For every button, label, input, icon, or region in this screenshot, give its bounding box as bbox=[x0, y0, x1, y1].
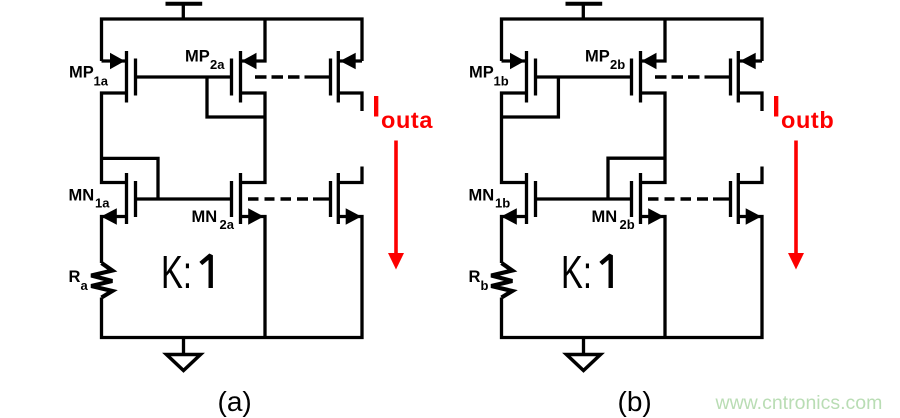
svg-text:(a): (a) bbox=[218, 386, 252, 417]
svg-text:MN: MN bbox=[69, 187, 95, 205]
svg-text:2a: 2a bbox=[210, 57, 225, 72]
svg-text:1a: 1a bbox=[94, 74, 109, 89]
svg-text:outb: outb bbox=[781, 107, 834, 133]
svg-text:MP: MP bbox=[585, 48, 610, 66]
svg-text:b: b bbox=[481, 278, 489, 293]
svg-text:MP: MP bbox=[469, 64, 494, 82]
svg-text:1b: 1b bbox=[495, 196, 510, 211]
svg-text:R: R bbox=[69, 268, 81, 286]
svg-text:1b: 1b bbox=[494, 74, 509, 89]
svg-text:2a: 2a bbox=[220, 217, 235, 232]
svg-text:R: R bbox=[469, 268, 481, 286]
svg-text:K:: K: bbox=[561, 246, 592, 298]
svg-text:2b: 2b bbox=[610, 57, 625, 72]
svg-text:MP: MP bbox=[69, 64, 94, 82]
svg-text:MN: MN bbox=[592, 208, 618, 226]
svg-text:MN: MN bbox=[192, 208, 218, 226]
svg-text:outa: outa bbox=[381, 107, 433, 133]
svg-text:(b): (b) bbox=[618, 386, 652, 417]
svg-text:a: a bbox=[81, 278, 89, 293]
svg-text:MP: MP bbox=[185, 48, 210, 66]
svg-text:www.cntronics.com: www.cntronics.com bbox=[715, 392, 883, 414]
svg-text:K:: K: bbox=[161, 246, 192, 298]
svg-text:1a: 1a bbox=[95, 196, 110, 211]
svg-text:MN: MN bbox=[469, 187, 495, 205]
svg-text:I: I bbox=[372, 91, 380, 124]
svg-text:I: I bbox=[772, 91, 780, 124]
svg-text:2b: 2b bbox=[620, 217, 635, 232]
